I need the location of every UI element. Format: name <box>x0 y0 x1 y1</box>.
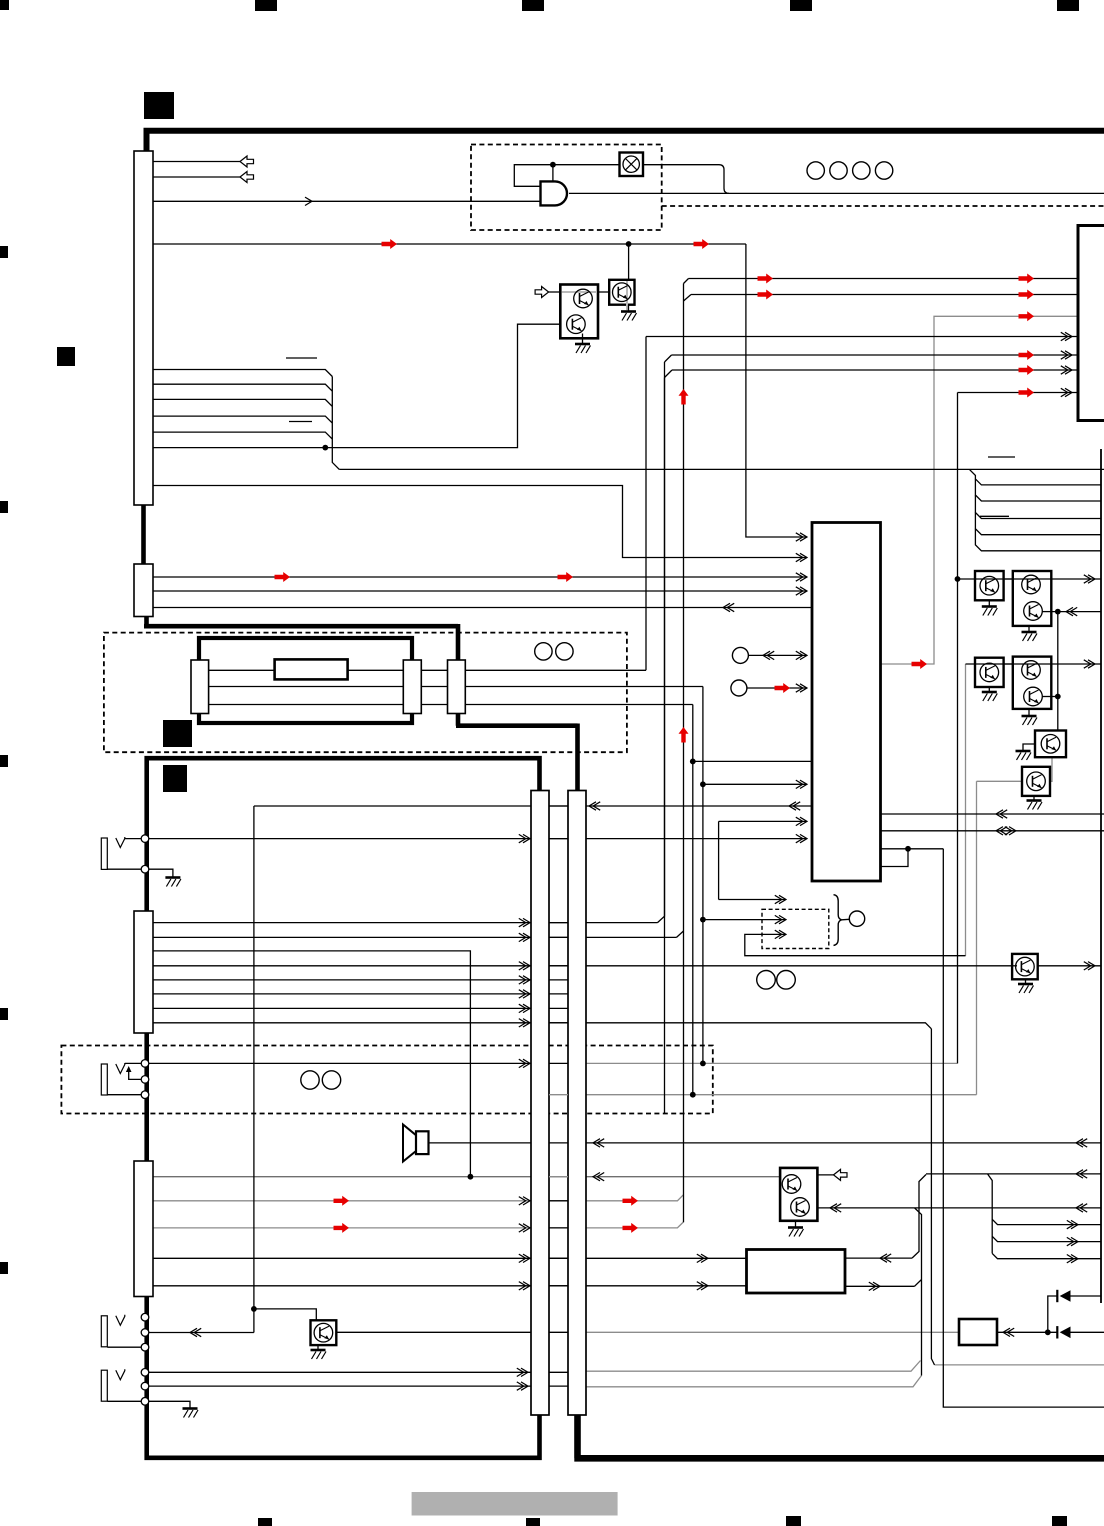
v692 drop <box>692 705 694 1095</box>
arrowhead right at 807,591 <box>800 587 807 595</box>
arrowhead right at 1078,1224.6 <box>1071 1220 1078 1228</box>
T8 ground <box>317 1345 319 1349</box>
arrowhead right at 530,1008.4 <box>523 1004 530 1012</box>
tuner component (filter) <box>275 659 348 679</box>
conn3 wire1 y922 <box>153 922 658 924</box>
T6 ground <box>1033 796 1035 800</box>
ground at 1029,716 <box>1022 715 1037 718</box>
arrowhead right at 530,965.8 <box>523 962 530 970</box>
arrowhead right at 530,838.6 <box>523 834 530 842</box>
red signal arrow at 709,244 <box>694 239 710 249</box>
section marker square B <box>57 347 75 366</box>
conn1 bottom wire to IC pin2 <box>153 486 807 558</box>
bar rung wire y1227.9 <box>549 1227 568 1229</box>
pair1 return y611 <box>1051 611 1101 613</box>
pin at 145,1347.2 <box>141 1343 149 1351</box>
thick link tuner to bar B <box>456 713 578 792</box>
T7 ground <box>1025 979 1027 983</box>
red signal arrow at 790,688 <box>775 683 791 693</box>
bar rung wire y1008.4 <box>549 1007 568 1009</box>
J4 wire3 to gnd <box>107 1401 190 1408</box>
ground at 1029,632 <box>1022 631 1037 634</box>
label dash 4 <box>980 515 1009 517</box>
footer gray label <box>412 1492 618 1516</box>
arrowhead right at 528,1372.3 <box>521 1368 528 1376</box>
speaker return right of bars <box>586 1142 1101 1144</box>
arrowhead right at 1072,336.5 <box>1065 332 1072 340</box>
P2a ground <box>988 687 990 692</box>
upper right IC box <box>1078 226 1104 421</box>
ground at 172.9,877.5 <box>165 876 180 879</box>
gray wire: v931 to right edge y1365 <box>935 1364 1104 1366</box>
conn1 bundle wire2 <box>153 384 332 391</box>
black segment y1174 to v992 <box>926 1173 1101 1175</box>
conn1 wire6 to U-A <box>153 324 560 447</box>
arrowhead right at 1016,830.8 <box>1009 827 1016 835</box>
jack J3 <box>101 1316 107 1347</box>
wire y355 <box>665 355 1104 362</box>
ground at 582.5,344 <box>575 343 590 346</box>
tuner dashed circles <box>535 643 552 660</box>
arrow wire3 into small dashed box <box>745 934 966 955</box>
four indicator circles <box>807 162 824 179</box>
arrowhead left at 723,607.5 <box>723 603 730 611</box>
ground at 628.5,311.5 <box>621 310 636 313</box>
ground at 989.3,606.5 <box>982 605 997 608</box>
arrowhead right at 786,919.6 <box>779 915 786 923</box>
arrowhead left at 1003,1332.3 <box>1003 1328 1010 1336</box>
J2 detect arm <box>129 1068 141 1079</box>
arrowhead right at 807,655.4 <box>800 651 807 659</box>
link CN1-CN2 <box>141 505 146 564</box>
arrowhead right at 880,1286.3 <box>873 1282 880 1290</box>
pair1 wire y579 <box>958 578 1102 580</box>
gray wire: headphone mute y1387 <box>586 1376 922 1387</box>
junction at 552.9,164.7 <box>550 162 556 168</box>
bar rung wire y937.4 <box>549 936 568 938</box>
red signal arrow at 1034,392.5 <box>1019 388 1035 398</box>
conn1 bundle bus vertical <box>332 377 339 470</box>
T7 output wire <box>1038 965 1101 967</box>
arrowhead right at 530,1022.8 <box>523 1019 530 1027</box>
arrowhead right at 1072,355 <box>1065 351 1072 359</box>
J1 sleeve to gnd <box>107 869 173 877</box>
ground at 1025.5,984 <box>1018 983 1033 986</box>
transistor T7 <box>1012 954 1038 979</box>
gray wire: to small box SB <box>586 1331 959 1333</box>
dashed box top (system control) <box>471 145 662 231</box>
U-A ground <box>582 334 584 344</box>
arrowhead left at 880,1258.1 <box>880 1254 887 1262</box>
red signal arrow up at 683.5,389 <box>679 389 689 405</box>
connector CN4 <box>134 1161 153 1297</box>
IC circle input y655 <box>748 654 807 656</box>
tuner right connector <box>403 660 421 714</box>
arrowhead right at 530,922.6 <box>523 918 530 926</box>
headphone jack wire <box>149 1332 254 1334</box>
transistor T5 <box>1035 731 1066 758</box>
J2 tip tail <box>125 1062 141 1064</box>
bus wire A y469 <box>339 468 1104 470</box>
pin at 145,1317.2 <box>141 1313 149 1321</box>
arrowhead right at 530,1227.9 <box>523 1224 530 1232</box>
stepped bundle to right box <box>969 469 1101 485</box>
v684 long riser <box>683 284 685 1223</box>
pin at 145,838.6 <box>141 835 149 843</box>
junction at 1057.8,611.6 <box>1055 609 1061 615</box>
tuner wires <box>209 669 448 671</box>
arrowhead left at 996,814 <box>996 810 1003 818</box>
conn3 wire3 y951 <box>153 951 470 1177</box>
pair2 wire y664 <box>966 663 1102 665</box>
mic input wire y838 <box>149 838 807 840</box>
junction at 692.8,761.4 <box>690 759 696 765</box>
IC bottom jog <box>881 849 944 867</box>
long wire right v943 <box>943 849 1104 1407</box>
arrow wire2 into small dashed box <box>703 919 786 921</box>
connector CN1 <box>134 151 153 505</box>
SB to diodes <box>997 1331 1057 1333</box>
conn3 wire8 y1022 <box>153 1023 931 1029</box>
S1 wire link <box>598 291 609 293</box>
gray riser x976 to T6 <box>976 781 978 1094</box>
arrowhead right at 1078,1258.7 <box>1071 1255 1078 1263</box>
arrowhead left at 763,655.4 <box>763 651 770 659</box>
IC circle input y687 <box>747 687 807 689</box>
wire S1 base drop <box>628 244 630 281</box>
pin at 145,1063.4 <box>141 1060 149 1068</box>
conn1 bundle wire3 <box>153 399 332 406</box>
red signal arrow up at 683.5,727 <box>679 727 689 743</box>
arrowhead right at 786,899.5 <box>779 895 786 903</box>
tuner left connector <box>191 660 209 714</box>
v718 drop to dashed box <box>718 821 720 899</box>
arrowhead right at 807,537 <box>800 533 807 541</box>
speaker <box>403 1125 416 1162</box>
arrowhead left at 589,806 <box>589 802 596 810</box>
U-B output wire y1207 <box>817 1207 1101 1209</box>
label dash 2 <box>289 421 312 423</box>
P2b ground <box>1028 709 1030 716</box>
P1a ground <box>988 600 990 606</box>
J4 wire1 <box>149 1371 531 1373</box>
bar rung wire y1386.1 <box>549 1385 568 1387</box>
arrowhead right at 807,557.5 <box>800 553 807 561</box>
arrowhead left at 789,806 <box>789 802 796 810</box>
arrowhead right at 1095,965.8 <box>1088 962 1095 970</box>
wire y370 <box>665 370 1104 378</box>
T8 output to bar <box>336 1331 531 1333</box>
arrowhead right at 530,1200.8 <box>523 1197 530 1205</box>
transistor P1a <box>975 571 1004 600</box>
wire v745 to IC pin1 <box>746 244 807 537</box>
junction at 702.9,1063.4 <box>700 1061 706 1067</box>
T5 base wire + gnd stub <box>1023 744 1035 751</box>
open arrow right at 548.6,292 <box>535 287 549 298</box>
open arrow left at 240,161.5 <box>240 156 254 167</box>
v992 cascade <box>988 1174 993 1254</box>
arrowhead right at 530,993.9 <box>523 990 530 998</box>
thick link connector2 to tuner <box>144 614 458 661</box>
red signal arrow at 1034,370 <box>1019 365 1035 375</box>
thick top border <box>147 131 1104 152</box>
gray wire: headphone mute y1371 <box>586 1361 921 1372</box>
wire conn1 to AND input2 <box>153 200 541 202</box>
gray wire: connector4 speaker R <box>153 1222 684 1228</box>
conn1 bundle wire5 <box>153 432 332 439</box>
T8 base feed <box>254 1309 316 1321</box>
section marker square D <box>163 765 187 792</box>
red signal arrow at 638,1227.9 <box>623 1223 639 1233</box>
v253 drop to headphone amp <box>253 806 255 1333</box>
arrowhead right at 807,838.6 <box>800 834 807 842</box>
bottom-left box thick border <box>147 758 540 1458</box>
arrowhead left at 996,830.8 <box>996 827 1003 835</box>
conn2 wire1 y577 <box>153 576 807 578</box>
conn3 wire7 <box>153 1007 531 1009</box>
IC headphone out y806 <box>254 805 812 807</box>
jack J1 <box>101 838 107 869</box>
ground at 190,1408.5 <box>183 1407 198 1410</box>
section marker square A <box>144 92 174 119</box>
transistor P2a <box>975 658 1004 687</box>
conn4 wire4 <box>153 1257 747 1259</box>
transistor S1 <box>609 280 634 305</box>
lamp output curve <box>643 165 730 194</box>
gray wire: bar B to riser x957 <box>586 1062 958 1064</box>
wire open arrow to U-A <box>549 291 561 293</box>
pin at 145,1386.1 <box>141 1382 149 1390</box>
wire restroke through pair boxes <box>975 578 1051 580</box>
conn3 wire2 y937 <box>153 936 677 938</box>
junction at 253.9,1308.9 <box>251 1306 257 1312</box>
AND gate <box>541 181 568 205</box>
dashed box tuner area <box>104 633 627 753</box>
J2 sleeve wire <box>107 1094 141 1096</box>
gray wire: IC out to upper-right box <box>881 316 1079 664</box>
arrowhead right at 708,1285.8 <box>701 1282 708 1290</box>
arrowhead right at 1072,370 <box>1065 366 1072 374</box>
arrowhead right at 1078,1241.6 <box>1071 1237 1078 1245</box>
dual transistor U-A <box>560 285 598 339</box>
pair2 return y696 <box>1051 696 1058 698</box>
conn4 wire5 <box>153 1285 747 1287</box>
lamp L1 <box>620 153 644 177</box>
v1057 link <box>1057 612 1059 731</box>
v646 riser <box>645 337 647 671</box>
arrowhead right at 807,577 <box>800 573 807 581</box>
red signal arrow at 290,577 <box>275 572 291 582</box>
conn1 bundle wire4 <box>153 416 332 423</box>
ribbon bar B <box>568 791 586 1416</box>
thick bottom-right border <box>574 1414 1104 1458</box>
arrowhead right at 528,1386.1 <box>521 1382 528 1390</box>
tuner 2nd connector <box>448 660 466 714</box>
pin at 145,1401.3 <box>141 1398 149 1406</box>
AND gate top feed <box>552 165 554 182</box>
D1 to box <box>1071 1295 1102 1297</box>
arrowhead right at 312,201.3 <box>305 197 312 205</box>
arrowhead right at 530,1063.4 <box>523 1059 530 1067</box>
section marker square C <box>163 720 192 747</box>
bar rung wire y1063.4 <box>549 1062 568 1064</box>
gray wire: bar B to riser x976 <box>586 1094 977 1096</box>
junction at 1057.8,696.5 <box>1055 694 1061 700</box>
U-B open arrow wire <box>817 1174 833 1176</box>
lower dashed circles <box>301 1071 319 1089</box>
junction at 1047.8,1332.3 <box>1045 1329 1051 1335</box>
arrow wire1 into small dashed box <box>719 899 786 901</box>
bar rung wire y1372.3 <box>549 1371 568 1373</box>
IC pin y784 <box>703 783 807 785</box>
v702 drop <box>702 687 704 1064</box>
arrowhead left at 1076,1207.9 <box>1076 1204 1083 1212</box>
small box SB <box>959 1319 997 1345</box>
gray wire: connector4 speaker L <box>153 1195 684 1201</box>
bar rung wire y1258.3 <box>549 1257 568 1259</box>
CB right wire2 <box>845 1285 914 1287</box>
T5 to T6 link <box>1050 757 1052 781</box>
pin at 145,1332.5 <box>141 1329 149 1337</box>
arrowhead left at 593,1142.9 <box>593 1139 600 1147</box>
arrowhead left at 830,1207.9 <box>830 1204 837 1212</box>
junction at 908,848.8 <box>905 846 911 852</box>
wire y278 <box>684 279 1079 284</box>
junction at 470.4,1176.7 <box>468 1174 474 1180</box>
bar rung wire y838.6 <box>549 838 568 840</box>
OO circles near small dashed box <box>757 971 776 990</box>
bar rung wire y965.8 <box>549 965 568 967</box>
dashed box small (mic select) <box>762 909 829 948</box>
J4 wire2 <box>149 1385 531 1387</box>
D2 to edge <box>1071 1331 1104 1333</box>
v957 drop <box>957 393 959 1064</box>
pin at 145,1372.3 <box>141 1369 149 1377</box>
bar rung wire y1332.3 <box>549 1331 568 1333</box>
ground at 989.3,692 <box>982 691 997 694</box>
T6 input from gray riser <box>977 780 1023 782</box>
bar rung wire y1094.7 <box>549 1094 568 1096</box>
open arrow left at 240,177 <box>240 172 254 183</box>
arrowhead right at 530,1285.8 <box>523 1282 530 1290</box>
main IC box <box>812 523 881 882</box>
arrowhead right at 807,784.3 <box>800 780 807 788</box>
AND gate output wire <box>569 192 1104 194</box>
AND gate input1 loop <box>514 165 619 187</box>
connector CN3 <box>134 911 153 1033</box>
dashed box lower jack area <box>61 1046 712 1114</box>
arrowhead right at 807,821.4 <box>800 817 807 825</box>
diode D1 <box>1060 1290 1071 1302</box>
diode D2 <box>1060 1327 1071 1339</box>
arrowhead left at 593,1176.7 <box>593 1173 600 1181</box>
v666 <box>664 378 666 1114</box>
conn3 wire4 y966 to T7 <box>153 965 1012 967</box>
registration marks <box>255 0 277 11</box>
red signal arrow at 927,664 <box>912 659 928 669</box>
red signal arrow at 1034,294.5 <box>1019 290 1035 300</box>
red signal arrow at 1034,278.5 <box>1019 274 1035 284</box>
speaker wire <box>428 1142 531 1144</box>
arrowhead right at 807,688 <box>800 684 807 692</box>
wire y294 <box>684 295 1079 302</box>
IC pin y761 <box>693 760 812 762</box>
bar rung wire y922.6 <box>549 922 568 924</box>
arrowhead right at 530,937.4 <box>523 933 530 941</box>
ground at 795.5,1227.5 <box>788 1226 803 1229</box>
dashed strip to right <box>662 205 1104 207</box>
arrowhead right at 786,934.4 <box>779 930 786 938</box>
v931 drop <box>931 1029 934 1365</box>
conn3 wire5 <box>153 979 531 981</box>
red signal arrow at 573,577 <box>558 572 574 582</box>
IC input circles <box>732 647 748 663</box>
tuner out wire3 <box>465 704 693 706</box>
right box edge v1101 <box>1100 449 1102 1303</box>
wire conn1 control y244 <box>153 243 746 245</box>
CB right wire1 <box>845 1257 912 1259</box>
arrowhead left at 1076,1142.9 <box>1076 1139 1083 1147</box>
IC pin y821 <box>719 820 807 822</box>
open arrow left at 833.5,1174.9 <box>834 1169 848 1180</box>
diode link vertical <box>1048 1296 1058 1332</box>
pin at 145,1079.4 <box>141 1076 149 1084</box>
bar rung wire y806 <box>549 805 568 807</box>
transistor T6 <box>1022 767 1050 796</box>
wire conn1 pin2 <box>153 176 240 178</box>
red signal arrow at 1034,355 <box>1019 350 1035 360</box>
arrowhead right at 1072,392.5 <box>1065 388 1072 396</box>
arrowhead right at 530,979.9 <box>523 976 530 984</box>
pin at 145,869.2 <box>141 865 149 873</box>
junction at 325.3,447.6 <box>322 445 328 451</box>
arrowhead right at 1095,664 <box>1088 660 1095 668</box>
J2 tip wire <box>149 1062 531 1064</box>
pin at 145,1094.7 <box>141 1091 149 1099</box>
junction at 702.9,784.3 <box>700 781 706 787</box>
jack J4 <box>101 1370 107 1401</box>
gray wire: connector4 speaker common <box>153 1176 780 1178</box>
conn3 wire6 <box>153 993 531 995</box>
tuner out wire1 <box>465 669 646 671</box>
label dash 3 <box>988 456 1015 458</box>
ribbon bar A <box>531 791 549 1416</box>
bar rung wire y1176.7 <box>549 1176 568 1178</box>
tuner out wire2 <box>465 686 703 688</box>
wire conn1 pin1 <box>153 161 240 163</box>
arrowhead left at 190,1332.5 <box>190 1328 197 1336</box>
U-B ground <box>795 1221 797 1227</box>
bar rung wire y1285.8 <box>549 1285 568 1287</box>
ground at 1023,751 <box>1016 750 1031 753</box>
J3 sleeve wire <box>107 1346 141 1348</box>
red signal arrow at 1034,316.3 <box>1019 311 1035 321</box>
bar rung wire y979.9 <box>549 979 568 981</box>
junction at 628.6,244 <box>626 241 632 247</box>
arrowhead left at 1066,611.6 <box>1066 607 1073 615</box>
bar rung wire y993.9 <box>549 993 568 995</box>
red signal arrow at 349,1200.8 <box>334 1196 350 1206</box>
wire y336 tuner AGC to right <box>646 336 1104 338</box>
brace and circle <box>834 895 842 946</box>
v664 riser <box>658 362 665 923</box>
arrowhead right at 708,1258.3 <box>701 1254 708 1262</box>
red signal arrow at 349,1227.9 <box>334 1223 350 1233</box>
dual transistor P2b <box>1013 657 1052 709</box>
arrowhead left at 1076,1173.9 <box>1076 1170 1083 1178</box>
tuner pack thick box <box>199 638 412 723</box>
v919 link CB <box>912 1175 926 1259</box>
